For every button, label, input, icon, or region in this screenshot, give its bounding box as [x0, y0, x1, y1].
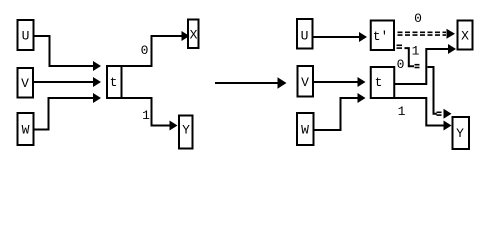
- node W (right): [297, 113, 314, 145]
- arrowhead U into t' (right): [359, 32, 367, 42]
- node W (left): [18, 113, 34, 145]
- arrowhead t out1 into Y (right): [444, 121, 452, 131]
- arrowhead U into t: [93, 61, 101, 71]
- svg-text:0: 0: [141, 43, 149, 58]
- arrowhead t out0 into X: [182, 31, 190, 41]
- svg-text:U: U: [22, 29, 30, 44]
- wire t out0 to X: [121, 36, 182, 66]
- svg-text:W: W: [22, 123, 30, 138]
- svg-text:X: X: [461, 29, 469, 44]
- node t cell (left): [107, 66, 122, 98]
- wire t out1 to Y: [121, 98, 170, 126]
- wire t' out1 dashed end at Y: [437, 112, 445, 115]
- wire t' out1 long vertical: [427, 67, 436, 114]
- svg-text:U: U: [301, 29, 309, 44]
- node X (left): [188, 20, 199, 49]
- wire t out0 to X (right): [394, 49, 448, 84]
- wire V to t (right): [314, 81, 358, 83]
- svg-text:Y: Y: [182, 123, 190, 138]
- wire t' out1 dashed middle: [415, 65, 423, 68]
- svg-text:t: t: [375, 75, 383, 90]
- arrowhead t' out0 into X (right): [447, 29, 456, 39]
- arrowhead V into t (right): [358, 77, 366, 87]
- node U (left): [18, 20, 34, 50]
- wire W to t: [34, 98, 93, 130]
- svg-text:1: 1: [398, 104, 406, 119]
- node V (left): [18, 68, 34, 98]
- svg-text:1: 1: [412, 44, 420, 59]
- wire t' out1 corner down: [405, 48, 415, 66]
- arrowhead rewrite arrow: [278, 77, 287, 88]
- node V (right): [298, 66, 314, 97]
- rewrite arrow shaft: [215, 82, 278, 84]
- arrowhead t' out1 into Y (right): [444, 109, 452, 119]
- node Y (left): [179, 116, 193, 149]
- wire t' out0 dashed to X (right): [398, 32, 447, 35]
- svg-text:W: W: [301, 123, 309, 138]
- arrowhead V into t: [93, 77, 101, 87]
- svg-text:0: 0: [397, 57, 405, 72]
- wire t out1 to Y (right): [394, 98, 444, 126]
- node Y (right): [453, 117, 470, 149]
- arrowhead W into t: [93, 93, 101, 103]
- node t' (right): [371, 21, 394, 51]
- arrowhead t out0 into X (right): [448, 44, 456, 54]
- svg-text:0: 0: [414, 11, 422, 26]
- node X (right): [458, 21, 473, 50]
- arrowhead W into t (right): [358, 93, 366, 103]
- svg-text:V: V: [301, 75, 309, 90]
- svg-text:t': t': [373, 29, 389, 44]
- arrowhead t out1 into Y: [170, 121, 178, 131]
- node U (right): [297, 19, 313, 49]
- wire U to t: [34, 36, 93, 66]
- svg-text:Y: Y: [456, 126, 464, 141]
- node t (right): [371, 67, 395, 98]
- svg-text:X: X: [190, 28, 198, 43]
- svg-text:1: 1: [142, 108, 150, 123]
- svg-text:t: t: [110, 75, 118, 90]
- wire V to t: [33, 81, 93, 83]
- wire t' out1 dashed start: [397, 45, 405, 48]
- wire W to t (right): [315, 98, 358, 130]
- svg-text:V: V: [21, 76, 29, 91]
- wire U to t' (right): [314, 36, 360, 38]
